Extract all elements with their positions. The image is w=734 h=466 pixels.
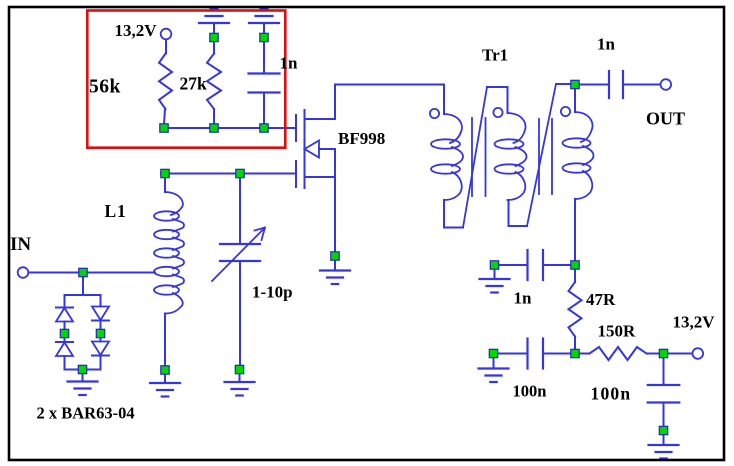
wire winding C top jog (556, 83, 571, 85)
node junction bypass 1n (490, 261, 498, 269)
polarity dot winding B (493, 108, 502, 117)
wire trimmer bottom lead (239, 261, 241, 365)
wire winding A bottom jog (444, 227, 463, 229)
svg-text:1n: 1n (280, 54, 299, 73)
node junction bias rail (571, 349, 579, 357)
wire supply node to terminal (668, 353, 693, 355)
node junction under trimmer (235, 365, 243, 373)
source tap Q1 (305, 176, 336, 178)
svg-text:Tr1: Tr1 (482, 46, 508, 65)
wire winding C bottom (574, 199, 576, 261)
svg-text:OUT: OUT (646, 109, 685, 129)
node junction under L1 (161, 366, 169, 374)
ground under bypass 1n (480, 278, 510, 280)
wire L1 node to ground (164, 374, 166, 383)
wire gate2 rail (164, 127, 295, 129)
wire C 1n top lead (263, 42, 265, 74)
wire input node down (82, 277, 84, 296)
resistor 150R (590, 347, 647, 360)
node junction winding C bottom (571, 261, 579, 269)
wire 47R bottom lead (574, 337, 576, 350)
wire D4 to bottom rail (100, 356, 102, 370)
svg-text:BF998: BF998 (338, 129, 385, 148)
transformer Tr1 winding B (508, 113, 526, 143)
wire output node to C (579, 84, 609, 86)
svg-text:2 x BAR63-04: 2 x BAR63-04 (37, 404, 135, 423)
ground under L1 (150, 382, 180, 384)
wire node to C 1n (bypass) (543, 264, 571, 266)
wire supply node to C 100n (663, 358, 665, 386)
wire 150R left lead (579, 353, 590, 355)
trimmer capacitor C 1-10p plates (220, 243, 260, 245)
red highlight box around bias network (87, 11, 285, 148)
wire gate1 rail (161, 173, 295, 175)
wire winding B bottom (508, 200, 510, 226)
op gate2 bar of Q1 (295, 115, 297, 141)
trimmer arrow (212, 228, 265, 282)
wire 27k to node (213, 109, 215, 124)
svg-text:47R: 47R (586, 290, 616, 309)
wire winding B top jog (487, 86, 508, 88)
wire diode branch top rail (65, 294, 101, 296)
wire 56k to node (164, 109, 165, 124)
node junction left 100n (489, 349, 497, 357)
source wire down (334, 149, 336, 252)
svg-text:56k: 56k (89, 77, 121, 98)
wire winding A bottom (443, 200, 445, 228)
resistor 47R (569, 282, 582, 337)
wire C 100n to ground node (498, 353, 528, 355)
capacitor 1n (bias box) (249, 72, 280, 74)
ground under diodes (68, 380, 98, 382)
wire mid node to D4 (100, 338, 102, 342)
ground under trimmer (225, 381, 255, 383)
svg-text:1-10p: 1-10p (252, 283, 293, 302)
wire 27k top lead (213, 42, 215, 54)
ground under supply 100n (649, 444, 679, 446)
node junction supply (659, 349, 667, 357)
wire 13,2V terminal to R 56k (165, 40, 167, 54)
node junction supply ground (659, 426, 667, 434)
svg-text:13,2V: 13,2V (673, 313, 716, 332)
ground under left 100n (479, 367, 509, 369)
wire winding B top stub (507, 87, 509, 113)
terminal OUT (661, 79, 672, 90)
wire 47R top lead (574, 269, 576, 282)
resistor 27k (207, 54, 221, 110)
capacitor 100n (left bypass) (526, 339, 528, 369)
drain wire to transformer (335, 84, 444, 86)
polarity dot winding A (430, 109, 439, 118)
drain wire up (334, 85, 336, 120)
diode D3 (right top, BAR63-04) (92, 320, 109, 322)
node junction output top (571, 80, 579, 88)
inverted ground above 27k (199, 22, 229, 24)
svg-text:13,2V: 13,2V (115, 21, 158, 40)
wire D1 to mid node (64, 322, 66, 330)
wire 100n node to ground (493, 358, 495, 369)
node junction right diode pair (96, 329, 104, 337)
svg-text:1n: 1n (514, 289, 533, 308)
svg-text:IN: IN (10, 234, 31, 255)
node junction under 27k (210, 124, 218, 132)
ground at source (320, 269, 350, 271)
wire trimmer node to ground (239, 374, 241, 383)
node junction above 27k (210, 33, 218, 41)
wire L1 top lead (164, 178, 166, 193)
capacitor 1n (output) (608, 71, 610, 98)
channel of transistor Q1 BF998 (304, 110, 306, 188)
node junction diode ground (78, 365, 86, 373)
node junction above C 1n (260, 33, 268, 41)
wire C to OUT terminal (623, 84, 661, 86)
svg-text:100n: 100n (513, 382, 547, 401)
node junction above trimmer (236, 169, 244, 177)
node junction input (79, 268, 87, 276)
wire C 100n to ground node (663, 403, 665, 427)
diode D4 (right bottom, BAR63-04) (92, 355, 109, 357)
svg-text:L1: L1 (105, 201, 127, 221)
transformer Tr1 winding A (444, 114, 462, 143)
wire 150R right lead (647, 353, 660, 355)
inverted ground above C 1n (249, 22, 279, 24)
wire winding B bottom jog (509, 225, 528, 227)
wire winding C top stub (574, 89, 576, 113)
wire C 1n to ground node (499, 264, 528, 266)
capacitor 100n (supply bypass) (648, 384, 680, 386)
resistor 56k (159, 54, 172, 110)
wire C 1n bottom lead (263, 93, 265, 125)
terminal 13,2V (top left) (161, 29, 172, 40)
wire node to ground (663, 435, 665, 446)
wire IN rail (29, 272, 156, 274)
diagonal link B-C (527, 84, 556, 226)
substrate arrow of Q1 (305, 141, 320, 158)
wire diode node to ground (82, 374, 84, 382)
wire right diode branch top (100, 295, 102, 307)
transformer Tr1 winding C (575, 112, 592, 142)
node junction at source ground (331, 252, 339, 260)
diode D2 (left bottom, BAR63-04) (56, 341, 73, 343)
svg-text:27k: 27k (180, 74, 208, 94)
svg-text:150R: 150R (598, 322, 637, 341)
diode D1 (left top, BAR63-04) (56, 307, 73, 309)
wire D3 to mid node (100, 321, 102, 330)
node junction under 56k (160, 124, 168, 132)
node junction left diode pair (60, 329, 68, 337)
svg-text:100n: 100n (591, 384, 632, 404)
wire source node to ground (334, 260, 336, 271)
node junction under C 1n (260, 124, 268, 132)
node junction above L1 (161, 169, 169, 177)
wire node to C 100n (left) (543, 353, 571, 355)
wire winding A top stub (443, 85, 445, 115)
wire diode bottom rail (65, 369, 101, 371)
wire trimmer top lead (239, 178, 241, 245)
wire D2 to bottom rail (64, 356, 66, 370)
svg-text:1n: 1n (597, 35, 616, 54)
polarity dot winding C (561, 107, 570, 116)
wire bypass node to ground (494, 269, 496, 279)
terminal 13,2V (supply) (693, 348, 704, 359)
core lines pair 1 (471, 118, 473, 196)
wire L1 bottom lead (164, 314, 166, 366)
gate1 bar of Q1 (295, 161, 297, 187)
wire left diode branch top (64, 295, 66, 308)
inductor L1 (165, 192, 183, 215)
diagonal link A-B (463, 87, 487, 228)
capacitor 1n (bypass) (526, 250, 528, 280)
core lines pair 2 (538, 119, 540, 194)
terminal IN (18, 267, 29, 278)
wire mid node to D2 (64, 338, 66, 343)
drain tap Q1 (305, 118, 336, 120)
